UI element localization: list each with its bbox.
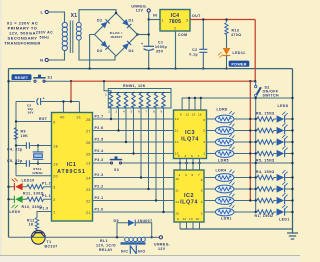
crystal XTAL 12MHz: [32, 146, 43, 175]
svg-text:T1: T1: [47, 240, 52, 244]
wire row LDR6: [207, 141, 293, 143]
svg-text:23: 23: [86, 188, 91, 192]
wire P2.2 row: [93, 109, 175, 191]
svg-text:6: 6: [192, 173, 194, 177]
svg-text:26: 26: [86, 141, 91, 145]
resistor R6: [257, 140, 274, 144]
wire N to primary: [48, 52, 64, 61]
svg-text:16V: 16V: [28, 111, 35, 115]
wire P2.5 row: [93, 109, 174, 144]
svg-text:12V: 12V: [158, 247, 166, 251]
wire secondary bottom to bridge AC bottom: [79, 40, 115, 60]
svg-text:LED8: LED8: [278, 104, 289, 108]
svg-text:10: 10: [175, 177, 179, 181]
switch S1: [33, 75, 52, 83]
resistor R4: [257, 175, 274, 179]
svg-text:P1.2: P1.2: [42, 182, 51, 186]
primary winding: [62, 22, 67, 51]
wire P1.1 row: [7, 194, 51, 200]
svg-text:1: 1: [203, 152, 205, 156]
svg-text:X1: X1: [71, 13, 78, 19]
svg-text:RESET: RESET: [15, 76, 29, 80]
wire to IC4 IN: [149, 19, 160, 21]
svg-text:20: 20: [53, 175, 58, 179]
svg-text:7: 7: [198, 173, 200, 177]
LED9: [10, 196, 23, 214]
svg-text:AT89C51: AT89C51: [57, 169, 86, 175]
terminal UNREG 12V out: [152, 236, 171, 251]
wire emitter to left bus: [9, 236, 32, 238]
switch S3: [110, 156, 122, 172]
svg-text:7: 7: [146, 110, 148, 114]
svg-text:D3: D3: [97, 49, 102, 53]
diamond wires: [95, 13, 138, 56]
wire P2.1 row: [93, 109, 175, 202]
svg-text:LED9: LED9: [10, 210, 21, 214]
svg-text:P2.1: P2.1: [95, 196, 104, 200]
wire P2.3 row: [93, 109, 175, 179]
svg-text:16: 16: [196, 217, 200, 221]
svg-text:IC1: IC1: [67, 162, 77, 168]
svg-text:BC337: BC337: [45, 245, 58, 249]
bridge rectifier D1-D4: [95, 12, 139, 56]
note X1 transformer description: [4, 21, 41, 46]
wire P1.2 row: [7, 182, 51, 188]
LDR5: [215, 146, 234, 158]
resistor R7: [257, 128, 274, 132]
svg-text:R9: R9: [21, 130, 26, 134]
svg-text:+: +: [141, 42, 144, 46]
svg-text:P1.0: P1.0: [40, 206, 49, 210]
RESET tag: [12, 74, 32, 80]
svg-text:4: 4: [123, 110, 125, 114]
svg-text:6: 6: [138, 110, 140, 114]
svg-text:25: 25: [86, 152, 91, 156]
capacitor C5: [7, 159, 52, 167]
wire row LDR2: [204, 200, 293, 202]
svg-text:1N4007: 1N4007: [110, 35, 122, 39]
LED1: [277, 205, 288, 216]
LED3: [277, 182, 288, 193]
svg-text:40: 40: [60, 115, 65, 119]
node dots row5: [249, 176, 294, 178]
resistor R9: [14, 128, 28, 140]
svg-text:LED10: LED10: [22, 179, 35, 183]
svg-text:SWITCH: SWITCH: [263, 94, 280, 98]
svg-text:L: L: [41, 10, 44, 15]
svg-text:D4: D4: [129, 49, 134, 53]
resistor R8: [257, 117, 274, 121]
svg-text:14: 14: [175, 140, 179, 144]
wires IC2 to ground rail: [180, 222, 200, 229]
LED5: [277, 146, 288, 157]
switch S2 ON/OFF: [255, 81, 280, 212]
svg-text:16: 16: [198, 113, 202, 117]
resistor R2: [257, 198, 274, 202]
svg-text:3: 3: [185, 173, 187, 177]
svg-text:12MHz: 12MHz: [32, 171, 43, 175]
svg-text:RNW1, 10K: RNW1, 10K: [123, 84, 146, 88]
left border bus: [8, 69, 10, 238]
svg-text:12V, 1C/O: 12V, 1C/O: [96, 244, 116, 248]
svg-text:10: 10: [175, 117, 179, 121]
capacitor C3: [16, 97, 63, 115]
svg-text:D2: D2: [97, 19, 102, 23]
resistor R13: [225, 18, 242, 48]
svg-text:470Ω: 470Ω: [231, 33, 241, 37]
svg-text:8: 8: [201, 178, 203, 182]
svg-text:P2.0: P2.0: [95, 208, 104, 212]
node dots on P3.3 ground bus: [179, 162, 294, 164]
svg-text:P2.7: P2.7: [95, 115, 104, 119]
core: [70, 21, 73, 54]
svg-text:15: 15: [175, 152, 179, 156]
wire P2.0 row: [93, 109, 175, 214]
svg-text:1: 1: [105, 93, 107, 97]
svg-text:28: 28: [86, 118, 91, 122]
svg-text:8: 8: [203, 118, 205, 122]
svg-text:R8, 150Ω: R8, 150Ω: [256, 112, 275, 116]
svg-text:2: 2: [108, 110, 110, 114]
wire GND pin20: [16, 175, 52, 177]
svg-text:LDR8: LDR8: [217, 108, 228, 112]
wires IC3 to IC2: [180, 159, 200, 171]
svg-text:C4, 22p: C4, 22p: [7, 148, 23, 152]
svg-text:19: 19: [53, 162, 58, 166]
svg-text:35V: 35V: [156, 50, 164, 54]
svg-text:2: 2: [174, 27, 176, 31]
svg-text:15: 15: [175, 211, 179, 215]
microcontroller IC1 AT89C51: [52, 113, 93, 222]
transformer X1: [62, 13, 81, 53]
svg-text:3: 3: [185, 154, 187, 158]
regulator IC4 7805: [160, 10, 201, 32]
ground rail: [180, 228, 293, 230]
diode D3 (bottom-left edge): [101, 41, 110, 50]
secondary winding: [76, 22, 81, 40]
svg-text:12: 12: [186, 113, 190, 117]
svg-text:1K: 1K: [29, 223, 34, 227]
node dots row8: [255, 211, 294, 213]
svg-text:C1: C1: [158, 41, 163, 45]
LED6: [277, 135, 288, 146]
LDR1: [215, 204, 234, 216]
svg-text:12: 12: [183, 217, 187, 221]
svg-text:LDR5: LDR5: [218, 159, 229, 163]
ground: [287, 229, 298, 239]
svg-text:P2.6: P2.6: [95, 126, 104, 130]
wire row LDR4: [204, 177, 293, 179]
svg-text:4: 4: [203, 140, 205, 144]
node dots row3: [249, 141, 294, 143]
svg-text:R4, 150Ω: R4, 150Ω: [256, 170, 275, 174]
capacitor C2: [189, 18, 207, 70]
svg-text:24: 24: [86, 176, 91, 180]
wire row LDR3: [204, 188, 293, 190]
node VCC to pins 40/31: [62, 81, 79, 112]
capacitor C4: [7, 142, 52, 151]
svg-text:31: 31: [77, 115, 82, 119]
wire P1.0 row to R12: [37, 206, 52, 217]
svg-text:9: 9: [180, 113, 182, 117]
svg-text:5: 5: [201, 188, 203, 192]
wire L to primary: [48, 12, 64, 23]
svg-text:COM: COM: [178, 33, 188, 37]
svg-text:11: 11: [175, 129, 179, 133]
optocoupler IC3 ILQ74: [174, 110, 207, 159]
svg-text:RST: RST: [39, 117, 48, 121]
svg-text:1: 1: [201, 211, 203, 215]
svg-text:C2: C2: [192, 48, 197, 52]
optocoupler IC2 ILQ74: [174, 170, 204, 222]
+5V red feed down to LED column: [249, 81, 251, 200]
svg-text:8: 8: [153, 110, 155, 114]
svg-text:P2.4: P2.4: [95, 149, 104, 153]
resistor R1: [257, 210, 274, 214]
svg-text:13: 13: [86, 161, 91, 165]
LED4: [277, 170, 288, 181]
svg-text:IC3: IC3: [185, 130, 195, 136]
terminal N: [40, 58, 48, 63]
svg-text:LED1: LED1: [279, 218, 290, 222]
resistor R3: [257, 187, 274, 191]
svg-text:6: 6: [191, 154, 193, 158]
svg-text:ILQ74: ILQ74: [181, 136, 199, 142]
wire row LDR5: [207, 153, 293, 155]
svg-text:1000µ: 1000µ: [155, 45, 167, 49]
svg-text:C5, 22p: C5, 22p: [7, 159, 23, 163]
svg-text:1: 1: [53, 210, 55, 214]
LED7: [277, 123, 288, 134]
node UNREG 12V: [131, 5, 150, 47]
+5V wire from OUT (red): [190, 19, 255, 21]
svg-text:11: 11: [175, 188, 179, 192]
node dots row2: [249, 129, 294, 131]
transistor T1 BC337: [31, 230, 57, 248]
resistor R12: [27, 218, 39, 231]
relay contacts N/C N/O: [121, 245, 146, 254]
svg-text:14: 14: [175, 200, 179, 204]
svg-text:27: 27: [86, 129, 91, 133]
svg-text:ILQ74: ILQ74: [180, 200, 198, 206]
LDR3: [215, 181, 234, 193]
svg-text:RL1: RL1: [100, 239, 108, 243]
svg-text:5: 5: [131, 110, 133, 114]
diode D4 (bottom-right edge): [122, 41, 131, 50]
svg-text:POWER: POWER: [231, 63, 246, 67]
top 0V bus: [9, 67, 293, 69]
svg-text:D1: D1: [129, 19, 134, 23]
svg-text:R13: R13: [232, 29, 240, 33]
LDR8: [215, 111, 234, 123]
svg-text:230V AC: 230V AC: [36, 31, 53, 35]
resistor network RNW1 10K: [104, 81, 171, 113]
svg-text:S3: S3: [114, 168, 119, 172]
svg-text:3: 3: [116, 110, 118, 114]
svg-text:N: N: [40, 58, 43, 63]
svg-text:R11, 330Ω: R11, 330Ω: [23, 191, 44, 195]
svg-text:4: 4: [201, 200, 203, 204]
wire row LDR1: [204, 211, 293, 213]
wire P2.6 row: [93, 109, 174, 132]
LED11: [218, 48, 245, 70]
+5V red vertical to switch: [254, 20, 256, 82]
svg-text:2: 2: [53, 198, 55, 202]
LED8: [277, 112, 288, 123]
node dots row1: [249, 118, 294, 120]
wire P2.4 row: [93, 109, 174, 155]
capacitor C1: [141, 41, 167, 69]
wire bridge minus to bus: [90, 35, 95, 69]
svg-text:IC2: IC2: [184, 193, 194, 199]
svg-text:22: 22: [86, 199, 91, 203]
diode D2 (top-left edge): [101, 19, 110, 28]
node dots row6: [249, 188, 294, 190]
diode D5: [114, 219, 153, 239]
LDR4: [215, 170, 234, 182]
LED10: [12, 178, 35, 190]
svg-text:3: 3: [186, 19, 188, 23]
svg-text:3: 3: [53, 186, 55, 190]
wire P3.3 row: [93, 158, 293, 163]
+5V red rail: [70, 80, 257, 82]
svg-text:50Hz: 50Hz: [40, 36, 50, 40]
svg-text:13: 13: [192, 113, 196, 117]
svg-text:P2.5: P2.5: [95, 138, 104, 142]
diode D1 (top-right edge): [122, 19, 131, 28]
svg-text:10K: 10K: [21, 134, 29, 138]
right border bus: [292, 69, 294, 229]
svg-text:1N4007: 1N4007: [138, 219, 153, 223]
svg-text:7: 7: [198, 154, 200, 158]
svg-text:OUT: OUT: [192, 14, 201, 18]
svg-text:N/C: N/C: [121, 249, 128, 253]
LDR7: [215, 123, 234, 135]
wire row LDR7: [207, 130, 293, 132]
svg-text:R5, 150Ω: R5, 150Ω: [256, 159, 275, 163]
node dots row4: [249, 152, 294, 154]
resistor R10: [22, 197, 44, 209]
LDR6: [215, 134, 234, 146]
svg-text:D5: D5: [114, 219, 119, 223]
svg-text:S1: S1: [48, 76, 53, 80]
svg-text:LDR4: LDR4: [216, 169, 227, 173]
svg-text:P2.3: P2.3: [95, 173, 104, 177]
svg-text:P1.1: P1.1: [42, 194, 51, 198]
label 230V AC 50Hz: [36, 31, 53, 40]
svg-text:18: 18: [53, 144, 58, 148]
resistor R5: [257, 151, 274, 155]
POWER tag: [229, 61, 250, 67]
svg-text:LDR1: LDR1: [221, 217, 232, 221]
IC3 emitter bus to border: [182, 97, 294, 110]
terminal L: [41, 10, 49, 15]
svg-text:LED11: LED11: [233, 51, 246, 55]
svg-text:IN: IN: [153, 14, 157, 18]
wire COM: [174, 31, 187, 70]
svg-text:13: 13: [189, 217, 193, 221]
svg-text:P3.3: P3.3: [95, 158, 104, 162]
wire RST: [15, 102, 52, 176]
resistor R11: [23, 185, 44, 196]
LED2: [277, 193, 288, 204]
svg-text:TRANSFORMER: TRANSFORMER: [4, 41, 41, 46]
LDR2: [215, 193, 234, 205]
svg-text:RELAY: RELAY: [99, 248, 113, 252]
svg-text:P2.2: P2.2: [95, 185, 104, 189]
node reset row at left bus: [7, 80, 9, 82]
svg-text:12V: 12V: [136, 9, 144, 13]
svg-text:R1, 150Ω: R1, 150Ω: [255, 214, 274, 218]
svg-text:1: 1: [162, 19, 164, 23]
node dots row7: [249, 199, 294, 201]
wire P2.7 row: [93, 109, 174, 121]
relay RL1 coil: [96, 237, 152, 252]
wire secondary top to bridge AC top: [79, 10, 116, 23]
svg-text:5: 5: [203, 129, 205, 133]
wire row LDR8: [207, 118, 293, 120]
svg-text:9: 9: [177, 217, 179, 221]
wire collector to relay: [45, 236, 124, 238]
wire reset row: [9, 80, 72, 82]
svg-text:21: 21: [86, 211, 91, 215]
svg-text:9: 9: [53, 120, 55, 124]
svg-text:N/O: N/O: [138, 249, 146, 253]
svg-text:0.1µ: 0.1µ: [189, 53, 198, 57]
svg-text:+: +: [43, 97, 46, 101]
svg-text:7805: 7805: [169, 19, 181, 25]
svg-text:9: 9: [161, 110, 163, 114]
